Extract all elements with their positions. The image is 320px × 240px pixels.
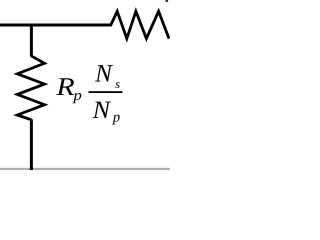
crop artifact: partial glyph at top-right corner — [166, 0, 169, 2]
svg-text:N: N — [92, 97, 112, 124]
svg-text:R: R — [55, 72, 75, 101]
fraction bar — [89, 91, 123, 93]
svg-text:p: p — [72, 88, 82, 104]
wire: top horizontal rail — [0, 24, 112, 27]
resistor (horizontal, top right, cropped at edge) — [111, 11, 169, 38]
svg-text:s: s — [115, 77, 120, 91]
wire: vertical branch lower lead to bottom edge — [30, 119, 33, 170]
crop artifact: grey band along bottom edge — [0, 168, 170, 170]
wire: vertical branch upper lead — [30, 24, 33, 57]
resistor Rp·Ns/Np (vertical zigzag) — [17, 56, 44, 120]
svg-text:N: N — [94, 61, 113, 88]
svg-text:p: p — [112, 110, 120, 126]
